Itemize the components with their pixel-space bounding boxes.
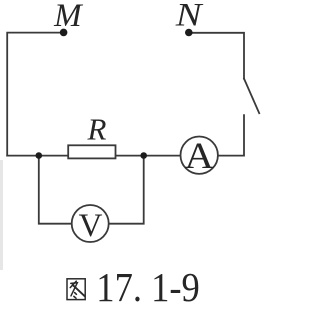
junction dot left — [36, 152, 43, 159]
node N terminal dot — [185, 29, 193, 37]
caption character tu (figure) — [67, 279, 85, 300]
svg-text:R: R — [87, 111, 107, 146]
svg-text:M: M — [53, 0, 83, 34]
switch S blade — [244, 79, 259, 114]
scan artifact streak left edge — [0, 160, 3, 270]
wire ammeter to right corner — [218, 115, 244, 155]
ammeter A — [181, 135, 218, 176]
svg-text:A: A — [185, 135, 214, 176]
wire main horizontal row — [7, 155, 180, 157]
resistor R — [68, 145, 115, 158]
wire voltmeter branch left — [39, 156, 72, 224]
wire voltmeter branch right — [109, 156, 144, 224]
node M terminal dot — [60, 29, 68, 37]
voltmeter V — [72, 205, 109, 244]
wire top-left from M to corner — [7, 33, 63, 156]
wire switch top to N — [189, 33, 244, 79]
svg-text:V: V — [79, 208, 103, 244]
svg-text:N: N — [175, 0, 204, 33]
svg-text:17. 1-9: 17. 1-9 — [96, 264, 200, 310]
junction dot right — [140, 152, 147, 159]
